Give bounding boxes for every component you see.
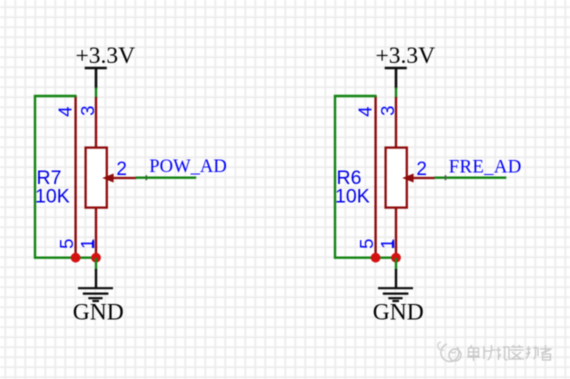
wiper pin 2 of R6 (arrow)	[402, 174, 435, 183]
svg-text:5: 5	[56, 239, 77, 249]
power port +3.3V bar symbol	[85, 68, 107, 89]
svg-text:10K: 10K	[35, 185, 70, 207]
wire U-loop pin4 to pin5	[35, 96, 96, 258]
wire POW_AD	[136, 176, 197, 178]
svg-text:FRE_AD: FRE_AD	[449, 156, 522, 177]
svg-text:4: 4	[354, 107, 375, 117]
svg-text:+3.3V: +3.3V	[76, 43, 136, 69]
svg-text:3: 3	[377, 106, 398, 116]
junction dot at pin 1 (right)	[391, 253, 401, 263]
pin 4/5 line of R6	[374, 96, 376, 259]
wire FRE_AD	[434, 176, 506, 178]
wire pin1 to ground (right)	[395, 258, 397, 270]
power port +3.3V bar symbol (right)	[385, 68, 407, 89]
svg-text:10K: 10K	[335, 185, 370, 207]
watermark logo	[438, 342, 461, 362]
resistor R6 body	[386, 148, 407, 208]
svg-text:POW_AD: POW_AD	[149, 156, 226, 177]
pin 3 of R7	[95, 97, 97, 149]
pin 1 of R7	[95, 208, 97, 258]
wire pin1 to ground	[95, 258, 97, 270]
wire from +3.3V to pin 3	[95, 88, 97, 99]
svg-text:2: 2	[416, 159, 427, 180]
junction dot at pin 5	[71, 253, 81, 263]
ground symbol bars (right)	[378, 288, 413, 301]
svg-text:GND: GND	[373, 300, 424, 326]
pin 1 of R6	[395, 208, 397, 258]
wire joint tick (right)	[445, 175, 447, 180]
wire from +3.3V to pin 3 (right)	[395, 88, 397, 99]
pin 4/5 line of R7	[74, 96, 76, 259]
svg-text:GND: GND	[73, 300, 124, 326]
junction dot at pin 1	[91, 253, 101, 263]
ground symbol stem (right)	[395, 269, 397, 288]
svg-text:2: 2	[116, 159, 127, 180]
ground symbol stem	[95, 269, 97, 288]
wiper pin 2 of R7 (arrow)	[102, 174, 136, 183]
svg-text:5: 5	[356, 239, 377, 249]
wire joint tick	[145, 175, 147, 180]
svg-text:3: 3	[77, 106, 98, 116]
wire U-loop pin4 to pin5 (right)	[335, 96, 396, 258]
resistor R7 body	[86, 148, 107, 208]
svg-text:4: 4	[54, 107, 75, 117]
watermark text strokes	[467, 345, 552, 361]
junction dot at pin 5 (right)	[371, 253, 381, 263]
pin 3 of R6	[395, 97, 397, 149]
ground symbol bars	[78, 288, 113, 301]
svg-text:+3.3V: +3.3V	[376, 43, 436, 69]
